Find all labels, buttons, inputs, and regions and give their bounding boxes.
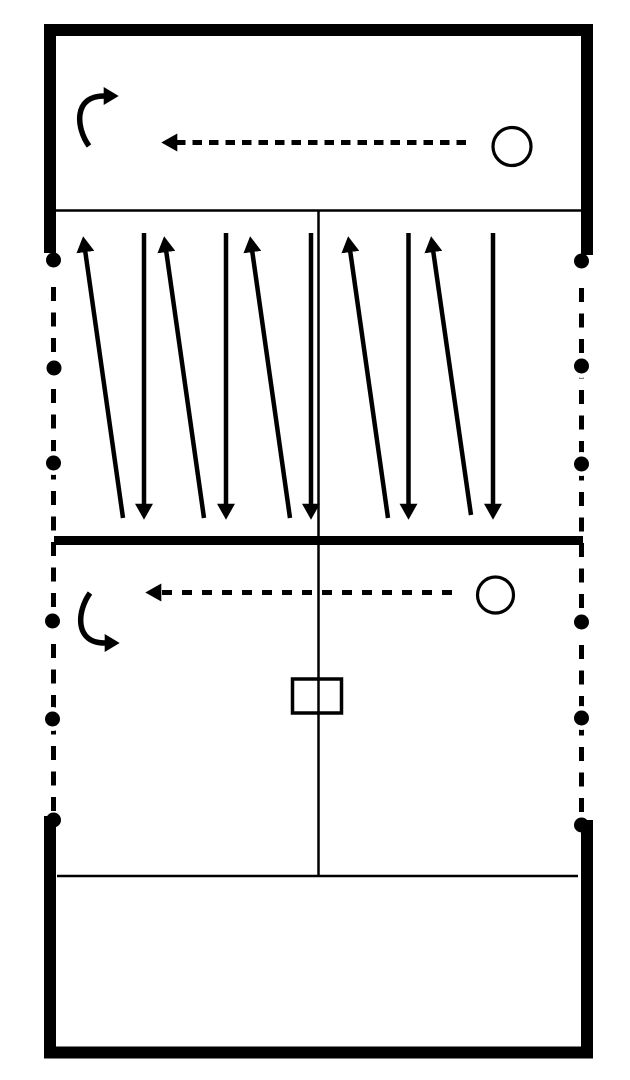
white halos around middle dots (left) (41, 356, 67, 731)
shuttle up arrow 1 (85, 252, 123, 518)
dashed run arrow bottom (161, 590, 452, 595)
shuttle down arrow 1 (142, 233, 147, 504)
shuttle down arrow 2 (224, 233, 229, 504)
upper zone line (thin) (56, 209, 581, 212)
middle attack line (thick) (54, 536, 583, 545)
shuttle up arrow 4 (350, 252, 388, 518)
shuttle up arrow 2 (166, 252, 204, 518)
right dashed sideline (579, 288, 584, 820)
top boundary (thick U shape) (50, 30, 587, 255)
shuttle up arrow 3 (252, 252, 290, 518)
curved turn arrow bottom (81, 593, 105, 643)
shuttle down arrow 3 (309, 233, 314, 504)
curved turn arrow top (80, 96, 104, 146)
bottom boundary (thick U shape) (50, 816, 587, 1053)
shuttle down arrow 4 (406, 233, 411, 504)
right sideline dots (574, 254, 589, 833)
left dashed sideline (51, 287, 56, 818)
white halos around middle dots (right) (570, 354, 594, 730)
shuttle up arrow 5 (433, 252, 471, 515)
player circle top (493, 128, 531, 166)
shuttle down arrow 5 (491, 233, 496, 504)
lower zone line (thin) (57, 875, 578, 878)
center vertical line (317, 210, 320, 876)
player circle bottom (478, 577, 514, 613)
left sideline dots (45, 253, 62, 828)
dashed run arrow top (177, 140, 466, 145)
coach box rectangle (293, 679, 342, 713)
